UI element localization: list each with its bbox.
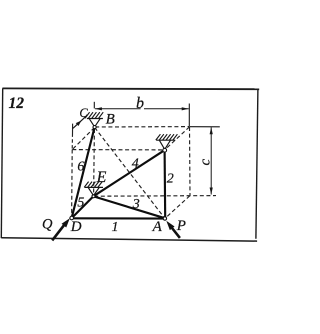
svg-text:6: 6: [77, 159, 84, 174]
wire: dashed stub to front-top-left corner: [71, 134, 73, 150]
wire: dashed box edge B to front-top-left corner: [72, 128, 94, 150]
node A: [163, 217, 166, 220]
dimension c: bottom arrowhead: [210, 188, 213, 195]
wire: dashed back-top edge B to corner: [95, 126, 189, 128]
support at E: triangle legs: [88, 188, 99, 196]
svg-text:P: P: [176, 218, 186, 234]
svg-text:5: 5: [77, 196, 84, 211]
svg-text:Q: Q: [42, 217, 53, 233]
bar 1 (D to A): [72, 217, 165, 219]
svg-text:b: b: [136, 95, 144, 112]
dimension c: top arrowhead: [210, 127, 213, 134]
dimension b: left arrowhead: [95, 107, 102, 110]
wire: dashed depth edge corner to right node: [165, 127, 190, 150]
frame top border: [2, 87, 259, 90]
wire: dashed diagonal B to A: [95, 128, 165, 219]
node right support: [163, 148, 167, 152]
dimension b: right extension line: [188, 104, 190, 127]
wire: dashed back-right vertical edge: [189, 127, 192, 195]
support at right node: triangle legs: [159, 140, 170, 149]
wire: solid stub above front-top-left corner: [72, 124, 74, 134]
bar 4 (E to right node): [94, 150, 165, 196]
bar 5 (D to E): [72, 196, 94, 218]
svg-text:D: D: [70, 219, 82, 235]
wire: dashed depth edge corner to A: [165, 196, 190, 218]
wire: dashed vertical B to E: [93, 129, 96, 195]
node D: [70, 216, 74, 220]
support at E: base line: [85, 186, 104, 188]
arrow C along top-left depth edge: [73, 116, 87, 129]
wire: dashed left vertical edge to D: [71, 150, 74, 218]
frame right border: [256, 89, 258, 238]
svg-text:3: 3: [132, 197, 140, 212]
bar 6 (B to D): [72, 128, 95, 218]
support at E: hatching: [84, 182, 102, 188]
bar 3 (E to A): [94, 196, 165, 218]
wire: dashed back-bottom edge E to corner with extension: [94, 195, 216, 198]
dimension b: right arrowhead: [182, 107, 189, 110]
support at B: hatching: [85, 112, 103, 118]
svg-text:C: C: [79, 106, 88, 120]
support at B: triangle legs: [89, 119, 100, 127]
frame left border: [1, 88, 2, 238]
dimension c: top extension line: [190, 126, 220, 128]
frame bottom border: [1, 238, 257, 241]
dimension b: left extension line: [93, 102, 95, 109]
svg-text:4: 4: [132, 157, 139, 172]
support at right node: base line: [156, 139, 175, 141]
svg-text:c: c: [197, 159, 213, 166]
support at right node: hatching: [156, 134, 178, 140]
svg-text:E: E: [96, 169, 107, 186]
dimension b: line: [95, 108, 189, 110]
svg-text:1: 1: [112, 220, 119, 235]
dimension c: line: [210, 127, 212, 194]
support at B: base line: [87, 118, 103, 120]
node B: [93, 126, 96, 129]
force P arrow at A: [171, 227, 180, 238]
svg-text:2: 2: [167, 172, 174, 187]
node E: [92, 195, 95, 198]
force Q arrow at D: [52, 225, 64, 241]
svg-text:12: 12: [9, 95, 25, 112]
bar 2 (right node to A): [164, 150, 167, 218]
wire: dashed front-top edge: [72, 149, 164, 151]
svg-text:B: B: [106, 112, 115, 128]
svg-text:A: A: [152, 219, 163, 235]
